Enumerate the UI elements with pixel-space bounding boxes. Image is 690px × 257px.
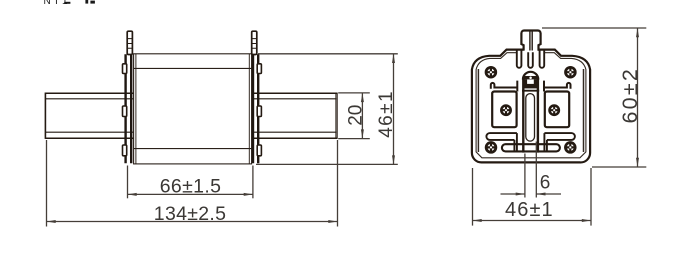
dimension 60±2 (front height) xyxy=(542,28,646,167)
right middle screw xyxy=(550,106,559,115)
corner screw bottom-right xyxy=(565,143,575,153)
dimension 6 (slot width) xyxy=(501,142,562,198)
svg-text:46±1: 46±1 xyxy=(376,90,397,138)
left lower hook channel xyxy=(486,133,516,152)
right strip tabs xyxy=(257,64,261,156)
indicator lower band xyxy=(524,84,537,89)
left end clip strip xyxy=(126,54,132,163)
left grip lug xyxy=(127,31,132,54)
body inner outline xyxy=(476,53,586,158)
ceramic body rectangle xyxy=(134,54,252,164)
central slot (stadium) xyxy=(526,94,535,142)
indicator side wedges xyxy=(524,79,527,84)
top mounting prongs xyxy=(517,51,544,68)
inner plate edge lines xyxy=(478,69,583,152)
left carrier rectangle xyxy=(492,92,516,128)
right grip lug xyxy=(252,31,257,54)
right carrier cap channel xyxy=(544,81,571,92)
left blade contact xyxy=(45,93,134,139)
left strip tabs xyxy=(123,64,127,156)
left carrier cap channel xyxy=(491,81,518,92)
corner screw top-left xyxy=(486,67,496,77)
right lower hook channel xyxy=(544,133,574,152)
top lug tab with slot xyxy=(521,31,540,51)
dimension 66±1.5 xyxy=(128,166,253,199)
dimension 20 (blade width) xyxy=(338,93,370,139)
indicator dark band with dot xyxy=(524,76,538,79)
right blade contact xyxy=(251,93,337,139)
striker indicator arch xyxy=(523,72,538,80)
corner screw bottom-left xyxy=(486,143,496,153)
body outer outline xyxy=(472,50,590,163)
center column walls xyxy=(523,79,538,153)
left middle screw xyxy=(501,106,510,115)
svg-text:66±1.5: 66±1.5 xyxy=(160,175,222,197)
dimension 46±1 (front width) xyxy=(473,168,592,226)
right end clip strip xyxy=(253,54,258,163)
svg-text:20: 20 xyxy=(345,105,366,126)
svg-text:60±2: 60±2 xyxy=(618,67,642,123)
title text NT1 (cut off at top) xyxy=(44,0,95,7)
svg-text:6: 6 xyxy=(540,172,551,193)
svg-text:134±2.5: 134±2.5 xyxy=(154,203,226,225)
column cap line under indicator xyxy=(522,90,539,92)
corner screw top-right xyxy=(566,67,576,77)
right carrier rectangle xyxy=(545,92,569,128)
dimension 46±1 (body height, side view) xyxy=(256,54,398,165)
dimension 134±2.5 xyxy=(47,140,338,227)
svg-text:46±1: 46±1 xyxy=(505,199,554,221)
bottom handle bar xyxy=(502,144,560,151)
